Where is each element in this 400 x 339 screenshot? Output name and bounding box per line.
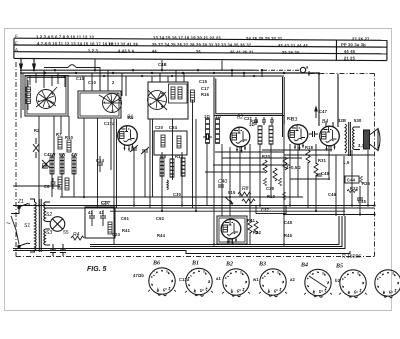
trimmer stack — [26, 80, 31, 110]
resistor R7 — [178, 87, 182, 99]
screen loop wire — [214, 77, 284, 137]
svg-text:42 43 31 44 46: 42 43 31 44 46 — [278, 43, 309, 48]
svg-text:a: a — [356, 290, 358, 294]
resistor R15 — [72, 157, 76, 174]
svg-text:a2: a2 — [290, 277, 295, 282]
resistor R19 — [160, 158, 164, 176]
svg-text:R4: R4 — [73, 232, 80, 238]
svg-text:B1: B1 — [191, 261, 199, 267]
svg-text:B6: B6 — [227, 239, 233, 245]
grid cap C42 — [203, 134, 212, 140]
antenna down-lead — [21, 70, 23, 118]
svg-text:C40: C40 — [218, 179, 227, 185]
C47 arrow — [315, 107, 317, 118]
junction dots mid — [38, 196, 376, 246]
coil box L1 — [25, 76, 68, 117]
resistor R30 zig — [263, 160, 267, 173]
resistor R42 — [254, 221, 258, 234]
svg-text:43: 43 — [99, 210, 104, 215]
svg-text:b2: b2 — [335, 278, 341, 283]
osc coil L4 — [167, 180, 168, 190]
resistor R2 — [33, 138, 39, 158]
resistor R20 — [170, 159, 174, 177]
svg-text:R13: R13 — [175, 154, 184, 159]
resistor R41 — [248, 220, 252, 233]
svg-text:B3: B3 — [258, 262, 266, 268]
svg-text:f: f — [310, 271, 311, 275]
resistor R37 — [263, 178, 266, 186]
cap C7 — [42, 166, 48, 168]
smoothing caps — [50, 244, 66, 256]
svg-text:f: f — [228, 270, 229, 274]
svg-text:g: g — [277, 270, 279, 274]
svg-text:C20: C20 — [155, 125, 164, 130]
svg-text:w1: w1 — [252, 277, 259, 282]
coil box L2 — [78, 91, 121, 118]
svg-text:1W: 1W — [49, 152, 56, 157]
svg-text:915: 915 — [228, 190, 236, 195]
socket B5 — [335, 264, 366, 298]
terminal table — [14, 38, 387, 60]
svg-text:g: g — [203, 269, 205, 273]
switch wiper lines — [36, 87, 167, 110]
band switch S1c — [145, 88, 168, 111]
svg-text:26: 26 — [196, 49, 202, 54]
bottom border wires — [13, 216, 350, 254]
svg-text:1Ω: 1Ω — [215, 114, 221, 119]
svg-text:C45: C45 — [358, 199, 367, 204]
svg-text:5W: 5W — [59, 152, 66, 157]
resistor R25 — [360, 176, 363, 183]
svg-text:PP 30 3a 3b: PP 30 3a 3b — [341, 42, 366, 47]
svg-text:a: a — [202, 288, 204, 292]
svg-text:S2: S2 — [46, 212, 52, 218]
svg-text:g: g — [357, 271, 359, 275]
tube B3 — [288, 117, 308, 151]
svg-text:25 27 24 25 26 27 28 29 30 31: 25 27 24 25 26 27 28 29 30 31 32 33 34 3… — [152, 42, 252, 48]
svg-text:Z1: Z1 — [17, 199, 24, 205]
svg-text:R5: R5 — [128, 115, 134, 120]
socket B1 — [186, 261, 212, 297]
svg-text:C47: C47 — [319, 109, 328, 114]
svg-text:B4: B4 — [300, 263, 308, 269]
resistor R14 — [60, 157, 64, 174]
svg-text:R10: R10 — [267, 194, 276, 199]
resistor R33 zig — [273, 168, 277, 181]
tube B4 — [320, 119, 340, 153]
wire crossover hump — [44, 65, 100, 91]
cap C8 — [51, 178, 56, 189]
svg-text:R30: R30 — [262, 154, 271, 159]
svg-text:4W: 4W — [71, 152, 78, 157]
svg-text:C39: C39 — [266, 186, 275, 191]
svg-text:C44: C44 — [347, 178, 356, 183]
resistor R23 — [206, 119, 210, 143]
svg-text:530: 530 — [354, 118, 362, 123]
svg-text:R10: R10 — [65, 135, 74, 140]
top bus wire 1 — [20, 69, 255, 71]
svg-text:S1: S1 — [24, 223, 30, 229]
resistor R18 zig — [306, 150, 310, 163]
socket B5a — [375, 270, 400, 298]
resistor R11 — [58, 177, 62, 189]
wire B4 plate — [318, 74, 320, 127]
svg-text:C8: C8 — [44, 184, 50, 189]
svg-text:~: ~ — [6, 219, 11, 228]
svg-text:a: a — [165, 287, 167, 291]
svg-text:C11a: C11a — [179, 277, 190, 282]
resistor R38 — [278, 178, 281, 186]
loudspeaker — [364, 129, 381, 151]
svg-text:f: f — [191, 269, 192, 273]
svg-text:C15: C15 — [199, 79, 208, 84]
svg-text:a: a — [321, 289, 323, 293]
svg-text:C46: C46 — [328, 192, 337, 197]
filter box C27 — [85, 207, 115, 238]
band switch S1a — [37, 90, 56, 109]
cap C22 — [262, 117, 266, 125]
socket B6 — [149, 261, 175, 296]
cap C37 box — [256, 206, 286, 214]
resistor R12 — [50, 157, 54, 174]
cap C40 — [218, 179, 227, 187]
svg-text:1 2 3 4 5 6 7 8 9 10 11 12 13: 1 2 3 4 5 6 7 8 9 10 11 12 13 — [36, 34, 94, 39]
svg-text:C24: C24 — [169, 125, 178, 130]
svg-text:24 26 28 29 30 31: 24 26 28 29 30 31 — [246, 36, 283, 41]
output transformer T2 — [345, 122, 360, 156]
svg-text:C17: C17 — [201, 86, 210, 91]
svg-text:C37: C37 — [261, 208, 270, 213]
resistor R39 — [282, 192, 285, 200]
svg-text:44: 44 — [152, 49, 158, 54]
svg-text:a1: a1 — [216, 276, 221, 281]
svg-text:1Ω: 1Ω — [204, 114, 210, 119]
resistor R11a — [65, 178, 69, 190]
svg-text:R25: R25 — [362, 181, 371, 186]
pot R28 — [225, 197, 233, 204]
mid horizontal wires — [13, 150, 375, 186]
resistor R17 — [177, 136, 181, 148]
svg-text:C23: C23 — [112, 232, 121, 237]
top bus wire 3 — [25, 75, 284, 77]
bus junction dots — [33, 69, 320, 77]
resistor R35 zig — [283, 157, 287, 170]
svg-text:C48: C48 — [321, 171, 330, 176]
resistor R4 — [71, 232, 84, 240]
cap C14 — [97, 156, 103, 172]
svg-text:C4B: C4B — [158, 62, 167, 67]
svg-text:C10: C10 — [88, 80, 97, 85]
svg-text:R8: R8 — [242, 186, 249, 192]
vertical wires mid section — [114, 100, 368, 245]
valve socket row — [13, 62, 400, 298]
svg-text:R3: R3 — [287, 116, 293, 121]
svg-text:C61: C61 — [121, 216, 130, 221]
svg-text:R22: R22 — [350, 186, 359, 191]
svg-text:C1b: C1b — [76, 76, 85, 81]
labels sprinkle — [34, 62, 371, 238]
antenna lead-in 1 — [19, 58, 24, 70]
svg-text:B4: B4 — [322, 119, 328, 125]
power transformer T1 — [30, 199, 50, 252]
cap C1 — [89, 210, 95, 226]
cap C21 — [254, 117, 258, 125]
resistor R24 — [216, 119, 220, 143]
terminal A — [300, 65, 310, 77]
socket B2 — [223, 262, 249, 297]
svg-text:42: 42 — [88, 210, 93, 215]
svg-text:32B: 32B — [338, 118, 346, 123]
bus drop wires — [30, 70, 262, 96]
svg-text:FIG. 5: FIG. 5 — [87, 266, 107, 273]
resistor R22 — [347, 189, 357, 192]
cap C25 — [270, 117, 274, 125]
resistor R8 zigh — [238, 186, 251, 196]
svg-text:a: a — [391, 290, 393, 294]
svg-text:4+0,5Ω: 4+0,5Ω — [286, 165, 301, 170]
svg-text:C14: C14 — [96, 158, 105, 163]
vertical wires left section — [39, 116, 111, 207]
svg-text:R42: R42 — [253, 230, 262, 235]
resistor R26 — [258, 126, 262, 144]
svg-text:f: f — [265, 270, 266, 274]
svg-text:12 13 32 41 26: 12 13 32 41 26 — [108, 41, 139, 46]
svg-text:47Ωb: 47Ωb — [133, 273, 144, 278]
svg-text:g: g — [322, 271, 324, 275]
svg-text:C27: C27 — [101, 200, 110, 205]
chassis dash-dot border — [16, 62, 375, 257]
svg-text:g: g — [392, 271, 394, 275]
svg-text:R44: R44 — [157, 233, 166, 238]
osc box L3 — [148, 82, 188, 119]
resistor R6 — [171, 87, 175, 99]
svg-text:a: a — [276, 288, 278, 292]
padder C4 — [42, 160, 50, 168]
svg-text:C17a: C17a — [104, 121, 115, 126]
cap C45 — [357, 198, 363, 200]
cap C2 — [100, 210, 106, 226]
svg-text:C7: C7 — [42, 162, 48, 167]
svg-text:C30: C30 — [173, 192, 182, 197]
svg-text:R7: R7 — [56, 132, 62, 137]
svg-text:B2: B2 — [237, 115, 243, 121]
resistor R3 — [108, 222, 112, 234]
svg-text:C48: C48 — [284, 220, 293, 225]
coupling cap C41 — [309, 131, 318, 137]
svg-text:B2: B2 — [225, 262, 233, 268]
svg-text:4 7 8 9 10 11 12 13 14 15 16 1: 4 7 8 9 10 11 12 13 14 15 16 17 18 19 — [37, 41, 114, 46]
tube B1 — [118, 115, 138, 153]
svg-text:R 15096: R 15096 — [342, 254, 361, 260]
trim cap C9 — [130, 145, 138, 152]
svg-text:55: 55 — [63, 230, 69, 236]
svg-text:21 25: 21 25 — [344, 56, 356, 61]
table drop wires — [95, 60, 222, 71]
svg-text:f: f — [345, 271, 346, 275]
svg-text:29 28 20: 29 28 20 — [282, 50, 300, 55]
socket B3 — [258, 262, 286, 297]
resistor R21 — [181, 158, 185, 176]
svg-text:g: g — [166, 269, 168, 273]
svg-text:R45: R45 — [284, 233, 293, 238]
tube B6 — [221, 219, 241, 245]
svg-text:4 43 5 6: 4 43 5 6 — [118, 48, 135, 53]
dial lamp — [50, 217, 65, 232]
svg-text:a: a — [239, 288, 241, 292]
svg-text:F: F — [15, 34, 18, 39]
resistor R9 zigh — [242, 199, 255, 203]
wire OT primary — [337, 74, 339, 127]
svg-text:R16: R16 — [201, 92, 210, 97]
svg-text:g: g — [240, 270, 242, 274]
top bus wire 2 — [20, 72, 319, 74]
svg-text:B5: B5 — [335, 264, 343, 270]
tube B2 — [230, 115, 250, 154]
cap C44 box — [345, 176, 359, 183]
svg-text:C62: C62 — [156, 216, 165, 221]
resistor R13 — [161, 135, 165, 147]
resistor R7a — [58, 137, 62, 149]
svg-text:13 14 15 16 17 18 19 20 21 22: 13 14 15 16 17 18 19 20 21 22 23 — [153, 35, 221, 40]
svg-text:3,1: 3,1 — [358, 143, 365, 148]
resistor R27 — [269, 126, 273, 144]
svg-text:44 45: 44 45 — [344, 49, 356, 54]
rectifier box — [217, 216, 247, 244]
cap C48a — [316, 174, 322, 176]
mid bus wires — [13, 197, 375, 215]
svg-text:R41: R41 — [247, 218, 256, 223]
socket B4 — [300, 263, 331, 298]
resistor R31 zig — [314, 163, 318, 176]
antenna lead-in 2 — [32, 58, 37, 70]
mains switch Z1 — [18, 204, 30, 248]
svg-text:R26: R26 — [250, 119, 259, 124]
svg-text:S3: S3 — [46, 230, 52, 236]
svg-text:R2: R2 — [34, 128, 40, 133]
svg-text:f: f — [154, 269, 155, 273]
IF can box — [154, 131, 187, 155]
svg-text:R18: R18 — [305, 145, 314, 150]
socket pin stubs — [148, 290, 367, 295]
svg-text:5/0: 5/0 — [160, 154, 167, 159]
svg-text:46 41 26 21: 46 41 26 21 — [230, 49, 254, 54]
svg-text:1 2 3: 1 2 3 — [88, 48, 99, 53]
resistor R10a — [67, 140, 71, 152]
svg-text:C1a: C1a — [57, 74, 66, 79]
band switch S1b — [100, 91, 124, 115]
trim cap C10 — [141, 147, 149, 154]
svg-text:B6: B6 — [152, 261, 160, 267]
svg-text:E: E — [15, 41, 18, 46]
svg-text:R31: R31 — [318, 158, 327, 163]
svg-text:27 26 27: 27 26 27 — [352, 36, 370, 41]
svg-text:f: f — [380, 271, 381, 275]
svg-text:R41: R41 — [122, 228, 131, 233]
resistor R16a — [191, 90, 195, 102]
